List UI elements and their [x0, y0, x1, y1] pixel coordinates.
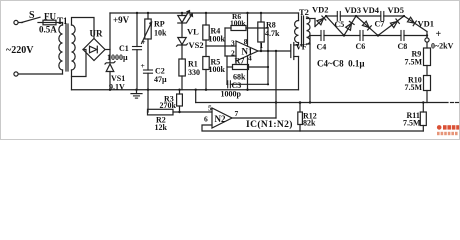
pin7 wire: [232, 117, 276, 119]
+9V top rail: [110, 12, 299, 14]
svg-text:0~2kV: 0~2kV: [431, 42, 454, 51]
svg-text:C5: C5: [335, 20, 345, 29]
svg-text:UR: UR: [90, 29, 103, 39]
zener VS2: [178, 38, 186, 45]
svg-text:5: 5: [208, 104, 212, 113]
HV output terminal: [426, 32, 428, 38]
resistor R1: [179, 59, 185, 76]
svg-text:R7: R7: [235, 57, 245, 66]
wire secondary top to bridge: [72, 18, 95, 39]
svg-text:~220V: ~220V: [6, 45, 34, 56]
AC input terminal top: [14, 20, 18, 24]
svg-text:+: +: [436, 29, 442, 40]
svg-text:1000µ: 1000µ: [107, 53, 128, 62]
resistor R9: [424, 48, 431, 66]
resistor R5: [205, 46, 207, 57]
switch S blade: [22, 17, 41, 22]
transformer T1 primary: [59, 25, 63, 70]
diode VD2 on rising diagonal: [315, 16, 326, 27]
pin6 path: [202, 125, 300, 131]
MOSFET VF: [290, 45, 292, 58]
svg-text:6: 6: [204, 115, 208, 124]
svg-text:N2: N2: [215, 114, 226, 124]
svg-text:C4~C8 0.1µ: C4~C8 0.1µ: [317, 59, 365, 69]
svg-text:7.5M: 7.5M: [403, 119, 421, 128]
svg-text:4: 4: [248, 54, 252, 63]
transformer T1 core: [65, 24, 67, 71]
capacitor C5: [336, 12, 338, 21]
resistor R2: [147, 111, 150, 113]
svg-text:S: S: [29, 10, 35, 21]
op-amp N1: [236, 41, 258, 61]
svg-text:0.5A: 0.5A: [39, 25, 57, 35]
svg-text:100k: 100k: [230, 19, 246, 28]
resistor R6: [225, 27, 231, 29]
svg-text:1000p: 1000p: [221, 90, 242, 99]
capacitor C8: [400, 31, 402, 41]
svg-text:VS2: VS2: [189, 40, 204, 50]
svg-text:100k: 100k: [209, 35, 226, 44]
svg-text:330: 330: [188, 68, 200, 77]
resistor R7: [227, 66, 233, 68]
svg-text:C1: C1: [119, 44, 129, 53]
svg-text:7.5M: 7.5M: [405, 58, 423, 67]
svg-text:47µ: 47µ: [154, 75, 167, 84]
svg-text:C7: C7: [375, 20, 385, 29]
fuse FU: [43, 20, 56, 25]
wire secondary bottom riser to feedback rail: [307, 43, 311, 45]
transformer T2 secondary: [307, 17, 311, 44]
diode VD1 on falling diagonal: [404, 16, 427, 32]
svg-text:VD1: VD1: [418, 18, 435, 28]
pin8 riser: [247, 13, 249, 46]
zigzag P1 to V1: [326, 16, 344, 36]
svg-text:T2: T2: [299, 7, 309, 17]
svg-text:100k: 100k: [209, 65, 226, 74]
R7/C3 left riser: [226, 56, 228, 84]
svg-text:FU: FU: [44, 12, 56, 22]
svg-text:270k: 270k: [160, 101, 177, 110]
capacitor C1: [136, 13, 138, 47]
potentiometer RP: [147, 13, 149, 19]
wire: [18, 22, 22, 24]
feedback divider left: riser from ground: [147, 90, 149, 112]
wire secondary top: [307, 18, 316, 20]
svg-text:7.5M: 7.5M: [405, 83, 423, 92]
svg-text:VD4: VD4: [363, 5, 380, 15]
wire: [38, 22, 43, 24]
ground rail: [72, 89, 299, 91]
bottom feedback wire: [300, 130, 423, 132]
wire bridge + output: [105, 49, 110, 51]
watermark: [437, 125, 459, 135]
svg-text:C8: C8: [398, 42, 408, 51]
svg-text:7: 7: [235, 109, 239, 118]
R6 left riser: [224, 28, 226, 56]
diode VD5 on rising diagonal: [378, 16, 404, 36]
output wire N1: [258, 50, 291, 52]
transformer T2 primary: [298, 13, 300, 21]
resistor R4: [205, 13, 207, 25]
pin2 wire: [225, 55, 236, 57]
feedback rail: [196, 102, 448, 104]
svg-text:VD3: VD3: [345, 5, 362, 15]
svg-text:VD2: VD2: [312, 5, 329, 15]
wire: [56, 22, 63, 24]
AC input terminal bottom: [14, 72, 18, 76]
capacitor C3: [226, 83, 229, 85]
diode VD4 on falling diagonal: [356, 16, 378, 36]
svg-text:4.7k: 4.7k: [265, 29, 280, 38]
svg-text:+: +: [141, 38, 146, 47]
svg-text:10k: 10k: [154, 29, 167, 38]
resistor R8: [260, 13, 262, 22]
pin4 riser: [247, 56, 249, 90]
svg-text:C6: C6: [356, 42, 366, 51]
ground symbol: [136, 90, 138, 94]
svg-text:82k: 82k: [303, 119, 316, 128]
node pin3 wire: [206, 45, 236, 47]
wire to bridge left vertex: [72, 50, 87, 77]
LED VL: [181, 13, 183, 16]
svg-text:3: 3: [231, 39, 235, 48]
svg-text:VD5: VD5: [388, 5, 405, 15]
resistor R12: [299, 103, 301, 113]
capacitor C6: [359, 31, 361, 41]
resistor R3: [179, 90, 181, 94]
svg-text:C4: C4: [317, 43, 327, 52]
wire secondary bottom to ground rail: [71, 70, 73, 90]
svg-text:IC(N1:N2): IC(N1:N2): [246, 119, 293, 130]
diode VD3 on rising diagonal: [344, 16, 356, 36]
capacitor C2: [144, 69, 153, 71]
wire +9V riser: [109, 13, 111, 63]
multiplier bottom row with C4 C6 C8: [310, 35, 321, 37]
svg-text:VL: VL: [187, 27, 199, 37]
svg-text:9.1V: 9.1V: [109, 82, 125, 91]
capacitor C4: [320, 31, 322, 41]
svg-text:T1: T1: [57, 16, 68, 26]
svg-text:VF: VF: [296, 42, 307, 52]
svg-text:+9V: +9V: [113, 15, 130, 25]
resistor R10: [424, 76, 431, 91]
bridge rectifier UR: [83, 39, 105, 61]
frame border: [1, 1, 460, 140]
svg-text:12k: 12k: [155, 123, 168, 132]
svg-text:+: +: [141, 61, 145, 70]
zener VS1: [106, 64, 114, 72]
svg-text:1: 1: [260, 41, 264, 50]
capacitor C7: [380, 12, 382, 21]
svg-text:8: 8: [244, 37, 248, 46]
op-amp N2: [212, 108, 232, 128]
svg-text:RP: RP: [154, 20, 165, 29]
multiplier top rail with C5 C7: [326, 15, 337, 17]
R6/R7/C3 right riser: [267, 28, 269, 84]
transformer T2 core: [301, 16, 303, 46]
transformer T1 secondary: [72, 25, 76, 70]
resistor R11: [422, 103, 424, 113]
wire: [18, 73, 62, 75]
